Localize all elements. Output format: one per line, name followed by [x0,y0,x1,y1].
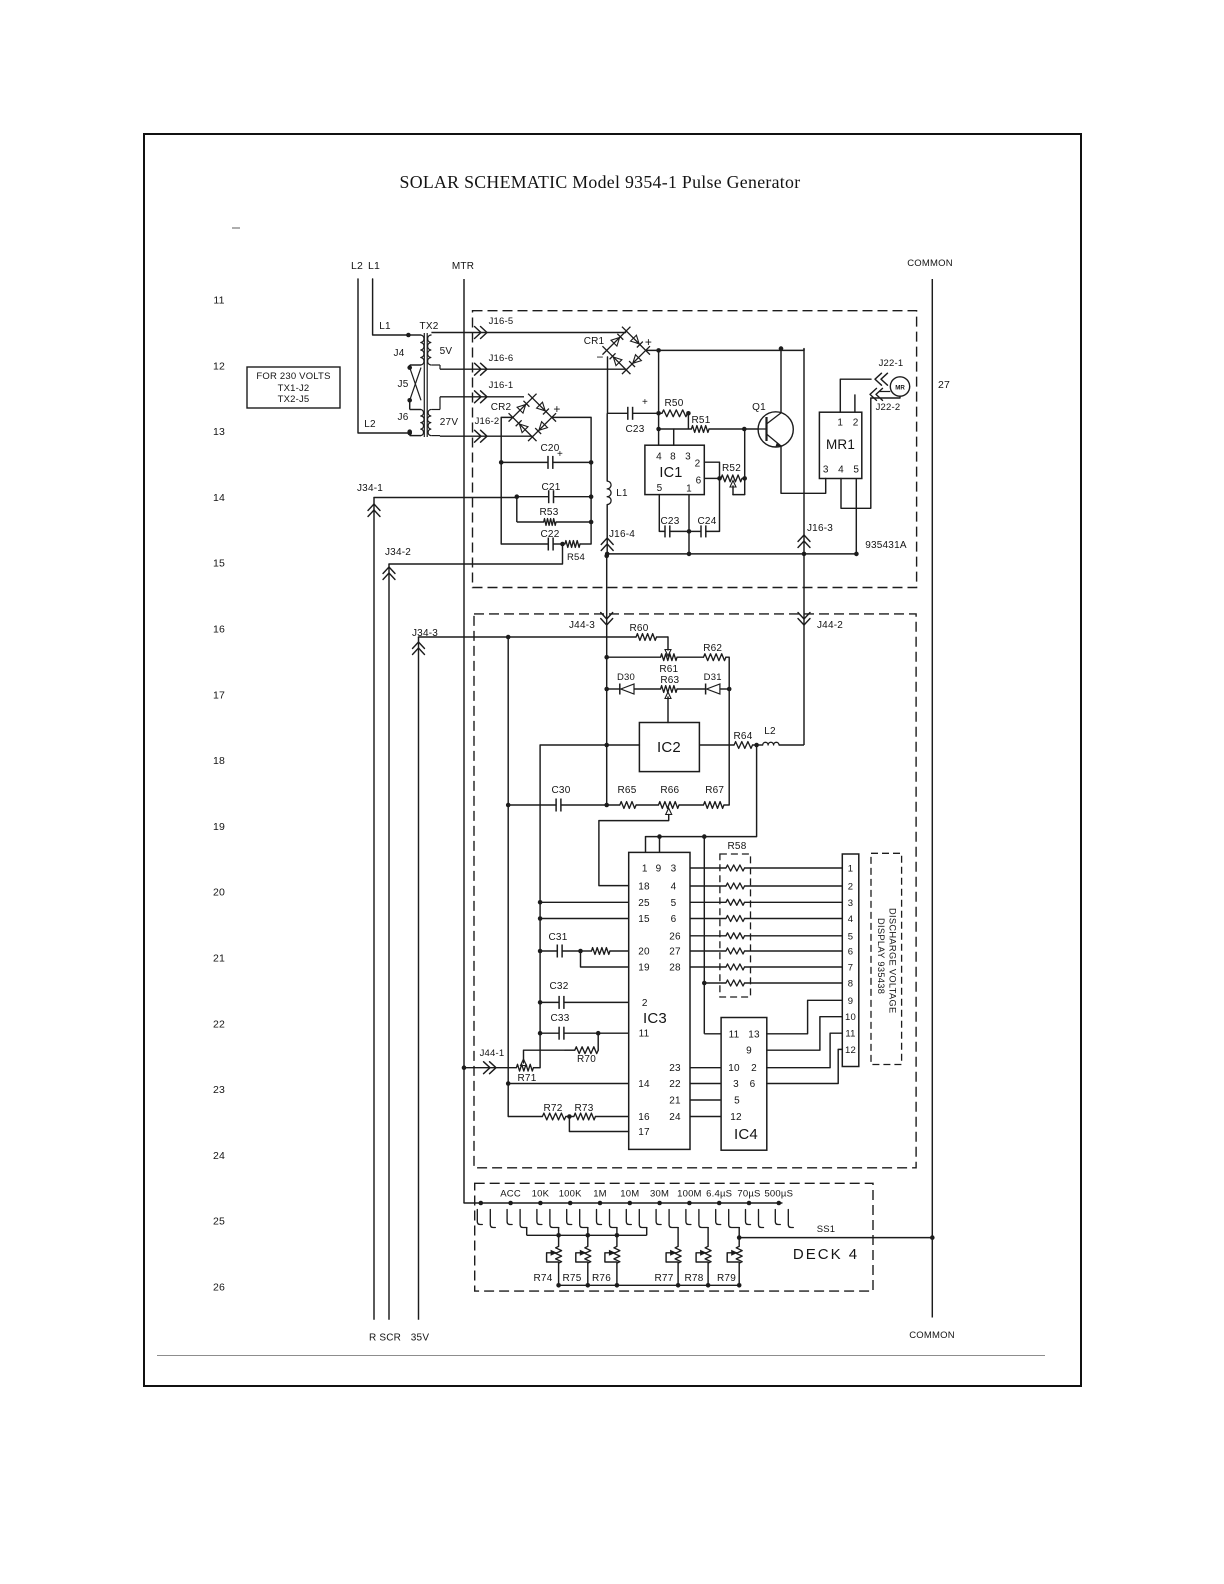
svg-text:4: 4 [656,452,662,463]
svg-text:C30: C30 [552,785,571,796]
svg-text:10: 10 [845,1012,856,1023]
wire pos2 contact drop [526,1227,528,1235]
svg-text:R51: R51 [692,415,711,426]
wire SS1 to COMMON [739,1237,932,1239]
wire CR1 minus drop to C23 [607,357,609,413]
svg-text:FOR 230 VOLTS: FOR 230 VOLTS [256,371,330,382]
wire MR1 pin2 to J22-2 [854,394,856,412]
resistor to IC3 pin20 [592,948,610,955]
R66 wiper to IC3 pin18 [666,808,672,815]
svg-text:30M: 30M [650,1189,669,1200]
svg-text:−: − [596,350,603,364]
svg-text:2: 2 [642,998,648,1009]
wire IC3 right vertical feed [703,837,705,1034]
wire to IC3 pins 1,9 [645,837,647,853]
svg-text:3: 3 [685,452,691,463]
svg-text:CR1: CR1 [584,336,605,347]
svg-text:13: 13 [748,1029,760,1040]
svg-text:10M: 10M [620,1189,639,1200]
svg-text:J34-2: J34-2 [385,547,411,558]
svg-text:6: 6 [750,1079,756,1090]
svg-text:R62: R62 [703,643,722,654]
svg-text:+: + [553,402,560,416]
svg-text:SS1: SS1 [817,1224,836,1235]
svg-text:C21: C21 [542,482,561,493]
wire IC3 pin17 [569,1117,628,1132]
svg-text:4: 4 [838,465,844,476]
wire pos6 contact drop [646,1227,648,1235]
svg-text:3: 3 [671,864,677,875]
svg-text:8: 8 [670,452,676,463]
svg-text:J34-1: J34-1 [357,483,383,494]
wire pot ground bus [559,1284,740,1286]
svg-text:19: 19 [638,963,650,974]
svg-text:COMMON: COMMON [907,258,953,269]
svg-text:100K: 100K [559,1189,582,1200]
svg-text:J16-4: J16-4 [609,529,635,540]
svg-text:2: 2 [853,418,859,429]
IC3 package [629,852,690,1149]
wire to IC3 pin19 [581,951,629,967]
svg-text:26: 26 [213,1282,225,1294]
wire L2 node drop [646,745,757,837]
wire Q1 collector to rail [780,349,782,413]
svg-text:3: 3 [733,1079,739,1090]
svg-text:5: 5 [657,483,663,494]
IC4 package [721,1018,767,1151]
svg-text:DISPLAY 935438: DISPLAY 935438 [876,918,886,994]
svg-text:CR2: CR2 [491,402,512,413]
svg-text:R61: R61 [659,664,678,675]
svg-text:1M: 1M [593,1189,607,1200]
svg-text:J22-1: J22-1 [879,358,904,369]
wire IC4 pin6 to display 12 [767,1049,843,1083]
svg-text:14: 14 [638,1079,650,1090]
wire IC3 pin24 to IC4 [690,1116,721,1118]
transformer TX2 27V winding [421,410,424,436]
svg-text:J6: J6 [398,412,409,423]
svg-text:MR1: MR1 [826,437,855,452]
rheostat R75 [585,1246,591,1263]
svg-text:4: 4 [848,914,853,925]
svg-text:J16-6: J16-6 [489,353,514,364]
svg-text:R72: R72 [544,1103,563,1114]
svg-text:500µS: 500µS [764,1189,793,1200]
svg-text:5: 5 [671,898,677,909]
svg-text:R70: R70 [577,1054,596,1065]
svg-text:9: 9 [656,864,662,875]
wire C23 node to IC1 [658,349,660,445]
svg-text:IC1: IC1 [659,465,682,481]
wire IC4 pin9 to display 10 [767,1017,843,1050]
svg-text:18: 18 [638,882,650,893]
svg-text:5: 5 [734,1096,740,1107]
svg-text:13: 13 [213,426,225,438]
svg-text:16: 16 [638,1112,650,1123]
switch SS1 contacts [477,1210,482,1225]
wire IC3 pin21 to IC4 [690,1099,721,1101]
svg-text:SOLAR SCHEMATIC Model 9354-1 P: SOLAR SCHEMATIC Model 9354-1 Pulse Gener… [400,172,801,192]
svg-text:R63: R63 [660,675,679,686]
svg-text:L2: L2 [351,260,363,272]
svg-text:C31: C31 [549,932,568,943]
svg-text:1: 1 [642,864,648,875]
relay MR1 package [819,412,861,478]
IC1 package [645,445,704,494]
svg-text:21: 21 [213,953,225,965]
svg-text:ACC: ACC [500,1189,521,1200]
svg-text:4: 4 [671,882,677,893]
svg-text:10K: 10K [532,1189,550,1200]
svg-text:2: 2 [751,1063,757,1074]
svg-text:J4: J4 [394,348,405,359]
wire IC1 pin2 loop [704,462,719,478]
svg-text:+: + [645,335,652,349]
svg-text:R77: R77 [655,1273,674,1284]
svg-text:20: 20 [638,947,650,958]
svg-text:C24: C24 [698,516,717,527]
wire COMMON bus [931,279,933,1318]
svg-text:J44-3: J44-3 [569,620,595,631]
svg-text:20: 20 [213,887,225,899]
svg-text:3: 3 [848,898,853,909]
svg-text:R58: R58 [728,841,747,852]
svg-text:12: 12 [730,1112,742,1123]
IC2 package [639,723,699,772]
svg-text:C23: C23 [661,516,680,527]
svg-text:6: 6 [848,947,853,958]
svg-text:11: 11 [845,1029,855,1040]
svg-text:15: 15 [213,558,225,570]
svg-text:R79: R79 [717,1273,736,1284]
wire pos7-9 drops to R77-R79 [677,1227,679,1246]
page frame [144,134,1081,1386]
svg-text:1: 1 [848,864,853,875]
svg-text:L2: L2 [764,726,776,737]
svg-text:8: 8 [848,979,853,990]
svg-text:23: 23 [213,1084,225,1096]
svg-text:IC4: IC4 [734,1126,758,1143]
wire IC1 pin1 to rail [688,495,690,554]
svg-text:19: 19 [213,821,225,833]
svg-text:1: 1 [686,484,692,495]
svg-text:J16-2: J16-2 [475,416,500,427]
indicator lamp MR(C) [890,377,909,396]
svg-text:TX1-J2: TX1-J2 [278,383,310,394]
rheostat R76 [614,1246,620,1263]
svg-text:J16-3: J16-3 [807,523,833,534]
dashed enclosure 935431A power supply [473,311,917,588]
svg-text:3: 3 [823,465,829,476]
svg-text:R75: R75 [563,1273,582,1284]
wire IC2 left [540,745,639,1068]
svg-text:L2: L2 [364,419,376,430]
R63 wiper to IC2 [667,697,669,723]
bridge rectifier CR2 [528,394,556,422]
svg-text:21: 21 [669,1096,681,1107]
svg-text:12: 12 [845,1045,856,1056]
svg-text:17: 17 [213,689,225,701]
svg-text:C32: C32 [550,981,569,992]
svg-text:28: 28 [669,963,681,974]
rheostat R77 [675,1246,681,1263]
svg-text:11: 11 [213,295,224,307]
svg-text:R66: R66 [660,785,679,796]
svg-text:27: 27 [938,379,950,391]
bridge rectifier CR1 [622,327,650,355]
dashed enclosure rotary switch deck [475,1183,873,1291]
svg-text:TX2: TX2 [420,321,439,332]
svg-text:R50: R50 [665,398,684,409]
svg-text:27V: 27V [440,417,459,428]
svg-text:J5: J5 [398,379,409,390]
svg-text:24: 24 [213,1150,225,1162]
svg-text:27: 27 [669,947,681,958]
svg-text:5: 5 [848,931,853,942]
svg-text:14: 14 [213,492,225,504]
svg-text:DISCHARGE VOLTAGE: DISCHARGE VOLTAGE [888,908,898,1014]
wire IC4 pin2 to display 11 [767,1033,843,1068]
svg-text:18: 18 [213,755,225,767]
svg-text:22: 22 [669,1079,681,1090]
dashed enclosure timing board [474,614,916,1168]
wire pot feed bus [527,1234,647,1236]
svg-text:6: 6 [696,476,702,487]
svg-text:MR: MR [895,385,905,392]
svg-text:R SCR: R SCR [369,1333,401,1344]
svg-text:15: 15 [638,914,650,925]
discharge voltage display module [871,853,902,1064]
svg-text:6: 6 [671,914,677,925]
svg-text:+: + [557,449,563,460]
wire IC3 pin23 to IC4 [690,1067,721,1069]
svg-text:2: 2 [695,459,701,470]
svg-text:J44-1: J44-1 [480,1048,505,1059]
wire MTR bus [463,279,465,1203]
wire IC4 pin13 to display 9 [767,1000,843,1034]
stray dash mark [232,227,240,229]
wire IC3 pin14 [508,1083,629,1085]
svg-text:R74: R74 [534,1273,553,1284]
svg-text:D31: D31 [704,672,722,683]
svg-text:R60: R60 [630,623,649,634]
svg-text:9: 9 [848,996,853,1007]
wire pos3-5 drops [558,1227,560,1246]
transformer TX2 core [423,333,425,437]
wire deck feed rail [464,1202,782,1204]
svg-text:23: 23 [669,1063,681,1074]
wire lamp to MR1 pin4 [841,396,900,508]
wire CR2 minus rail [501,417,513,544]
svg-text:R53: R53 [540,507,559,518]
svg-text:L1: L1 [616,488,628,499]
svg-text:11: 11 [639,1029,650,1040]
svg-text:22: 22 [213,1018,225,1030]
svg-text:11: 11 [729,1029,740,1040]
svg-text:D30: D30 [617,672,635,683]
svg-text:+: + [642,397,648,408]
svg-text:24: 24 [669,1112,681,1123]
note box FOR 230 VOLTS TX1-J2 TX2-J5 [247,367,340,408]
svg-text:16: 16 [213,624,225,636]
svg-text:2: 2 [848,882,853,893]
wire MR1 pin1 to J22-1 [840,379,871,412]
svg-text:9: 9 [746,1046,752,1057]
svg-text:R67: R67 [705,785,724,796]
svg-text:J44-2: J44-2 [817,620,843,631]
svg-text:R71: R71 [518,1073,537,1084]
wire minus rail vertical [606,413,608,481]
svg-text:R73: R73 [575,1103,594,1114]
wire IC1 pin6 [704,477,719,479]
svg-text:935431A: 935431A [865,540,907,551]
transformer TX2 5V winding [421,335,424,365]
svg-text:J22-2: J22-2 [876,402,901,413]
svg-text:COMMON: COMMON [909,1330,955,1341]
svg-text:25: 25 [213,1216,225,1228]
svg-text:L1: L1 [368,260,380,272]
wire IC3 pin22 to IC4 [690,1083,721,1085]
wire Q1 emitter to MR1 pin3 [781,446,826,493]
wire IC3 pin15 [540,918,629,920]
wire ground rail of box1 [607,553,856,555]
svg-text:17: 17 [638,1127,650,1138]
svg-text:12: 12 [213,360,225,372]
svg-text:C33: C33 [551,1013,570,1024]
rheostat R78 [705,1246,711,1263]
svg-text:R76: R76 [592,1273,611,1284]
grid row labels 11-26 [213,295,225,1294]
svg-text:70µS: 70µS [737,1189,760,1200]
svg-text:6.4µS: 6.4µS [706,1189,732,1200]
rheostat R74 [556,1246,562,1263]
svg-text:J16-1: J16-1 [489,380,514,391]
scan artifact line [157,1355,1045,1357]
svg-text:R52: R52 [722,463,741,474]
svg-text:J16-5: J16-5 [489,316,514,327]
wire IC3 pin25 [540,901,629,903]
svg-text:C23: C23 [626,424,645,435]
svg-text:Q1: Q1 [752,402,766,413]
svg-text:R64: R64 [734,731,753,742]
svg-text:10: 10 [728,1063,740,1074]
wire positive rail [646,349,804,351]
svg-text:7: 7 [848,963,853,974]
svg-text:35V: 35V [411,1333,430,1344]
svg-text:L1: L1 [379,321,391,332]
svg-text:5V: 5V [440,346,453,357]
svg-text:TX2-J5: TX2-J5 [278,394,310,405]
wire CR2 plus rail [552,417,591,544]
wire L2 bus [358,279,410,433]
wire J34-3 branch into board [507,637,509,1117]
R52 wiper [733,494,745,496]
svg-text:R54: R54 [567,552,585,563]
wire IC4 pin11 feed [704,1033,721,1035]
svg-text:C22: C22 [541,529,560,540]
svg-text:IC2: IC2 [657,739,681,756]
wire R50 to R51 [687,413,689,429]
svg-text:IC3: IC3 [643,1010,667,1027]
svg-text:1: 1 [837,418,843,429]
display connector block [842,854,859,1067]
rheostat R79 [736,1246,742,1263]
svg-text:R78: R78 [685,1273,704,1284]
svg-text:MTR: MTR [452,261,474,272]
svg-text:R65: R65 [618,785,637,796]
svg-text:25: 25 [638,898,650,909]
svg-text:DECK 4: DECK 4 [793,1246,859,1263]
svg-text:26: 26 [669,931,681,942]
wire positive rail drop [803,349,805,745]
wire L1 bus [373,279,409,335]
wire MR1 pin5 to ground rail [855,479,857,554]
svg-text:5: 5 [853,465,859,476]
svg-text:100M: 100M [677,1189,702,1200]
